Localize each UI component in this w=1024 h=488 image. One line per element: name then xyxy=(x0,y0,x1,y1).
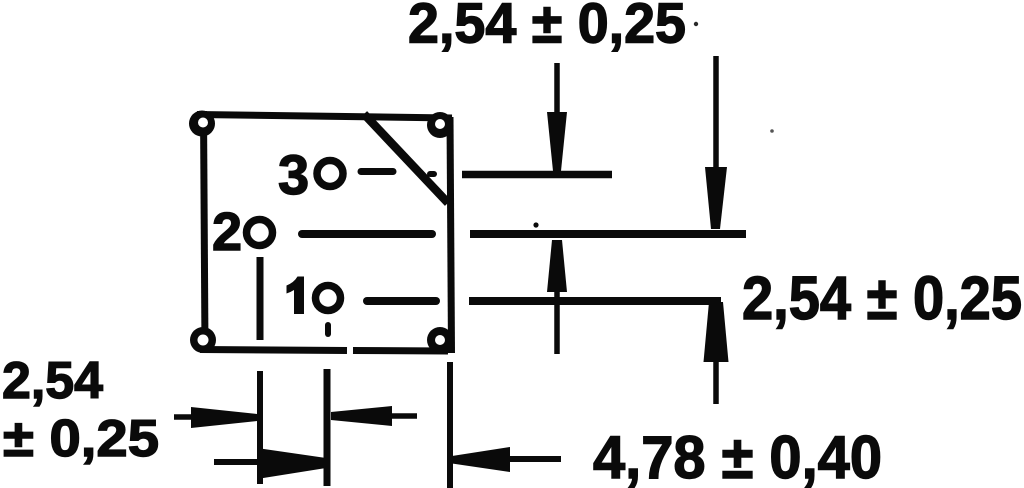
speck right of chamfer xyxy=(770,129,774,133)
pin 1 tick xyxy=(325,325,331,334)
up-arrow to pin 2 line xyxy=(547,240,567,354)
pin 1 lead line xyxy=(367,297,436,305)
pin 2 terminal circle xyxy=(247,220,273,246)
extension line C below package right edge xyxy=(447,362,453,488)
pitch dim arrow pointing right into line A xyxy=(174,407,257,428)
lower dim arrow pointing right into line B xyxy=(214,448,326,479)
top dimension down-arrow left xyxy=(547,63,567,171)
pin 3 lead dot xyxy=(430,171,434,177)
speck above pin 2 line xyxy=(533,222,538,227)
package outline left edge xyxy=(204,111,206,350)
pin 3 lead line xyxy=(361,168,393,175)
svg-text:3: 3 xyxy=(278,143,309,206)
package outline bottom edge left segment xyxy=(200,350,347,351)
svg-text:2,54 ± 0,25: 2,54 ± 0,25 xyxy=(742,264,1022,332)
speck near top text xyxy=(694,22,698,26)
corner pad top-right xyxy=(427,112,453,138)
corner pad bottom-left xyxy=(190,327,216,353)
svg-text:2,54 ± 0,25: 2,54 ± 0,25 xyxy=(408,0,686,56)
pin 1 label xyxy=(287,277,305,315)
package outline bottom edge right segment xyxy=(353,347,448,355)
pin 2 wiper tick xyxy=(257,257,264,340)
corner pad top-left xyxy=(189,111,215,137)
pin 2 lead line xyxy=(302,230,432,238)
pin 3 extension line xyxy=(462,171,612,179)
lower dim arrow pointing left into line C xyxy=(452,447,561,472)
pin 1 extension line xyxy=(469,297,721,305)
svg-text:2: 2 xyxy=(212,202,242,262)
svg-text:2,54: 2,54 xyxy=(2,352,103,410)
package outline right edge xyxy=(450,117,452,353)
pin 1 terminal circle xyxy=(316,286,341,311)
pin 2 extension line xyxy=(470,230,746,238)
pitch dim arrow pointing left from line B xyxy=(331,406,417,426)
svg-text:± 0,25: ± 0,25 xyxy=(3,410,159,468)
extension line B below pin 1/3 column xyxy=(324,369,331,486)
svg-text:4,78 ± 0,40: 4,78 ± 0,40 xyxy=(593,424,882,488)
extension line A below pin 2 column xyxy=(257,371,263,484)
corner pad bottom-right xyxy=(427,327,453,353)
up-arrow to pin 1 line xyxy=(704,302,729,404)
pin 3 terminal circle xyxy=(317,161,343,187)
top dimension down-arrow right xyxy=(705,56,727,229)
chamfer orientation mark xyxy=(364,114,448,203)
package outline top edge xyxy=(197,115,452,119)
